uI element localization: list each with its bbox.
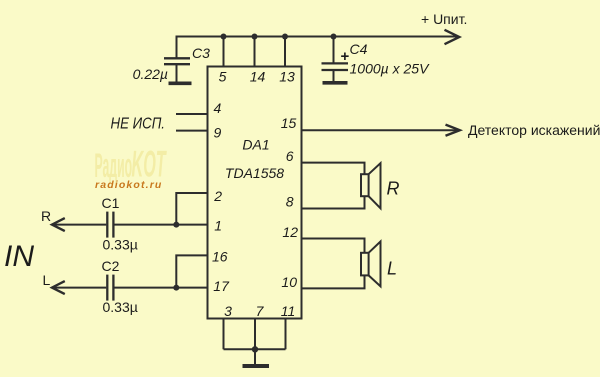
svg-text:2: 2 (213, 188, 222, 204)
svg-text:17: 17 (213, 278, 230, 294)
capacitor C2 (107, 275, 113, 301)
svg-text:C4: C4 (350, 41, 368, 57)
wire: pin 1 input (115, 224, 208, 226)
wire: pin 10 to speaker L (302, 275, 365, 288)
svg-text:L: L (387, 259, 397, 279)
junction: pin16/pin17 (173, 285, 179, 291)
wire: ground bus (224, 348, 286, 350)
svg-text:radiokot.ru: radiokot.ru (95, 179, 163, 191)
ground (C3) (169, 82, 192, 86)
wire: pin 4 stub (not used) (176, 113, 208, 115)
wire: ground stem (254, 349, 256, 364)
svg-text:DA1: DA1 (242, 137, 269, 153)
svg-text:7: 7 (256, 303, 265, 319)
svg-text:3: 3 (224, 303, 232, 319)
svg-text:12: 12 (282, 224, 298, 240)
wire: pin 14 lead (254, 37, 256, 68)
svg-text:C3: C3 (192, 45, 210, 61)
ground symbol (243, 364, 270, 368)
capacitor C4 (322, 37, 349, 82)
capacitor C3 (164, 58, 190, 81)
wire: pin 17 input (115, 287, 208, 289)
wire: pin 13 lead (284, 37, 286, 68)
junction: rail / C4 (331, 34, 337, 40)
svg-text:13: 13 (279, 69, 295, 85)
svg-text:4: 4 (214, 100, 222, 116)
wire: input L segment (52, 287, 106, 289)
svg-text:L: L (43, 272, 51, 288)
svg-text:IN: IN (4, 240, 34, 273)
svg-text:11: 11 (281, 303, 296, 319)
svg-text:Детектор искажений: Детектор искажений (468, 122, 600, 138)
wire: pin 12 to speaker L (302, 239, 365, 253)
junction: ground (252, 346, 258, 352)
arrow: input R (52, 218, 65, 231)
svg-text:0.22µ: 0.22µ (133, 66, 168, 82)
speaker L (361, 242, 381, 287)
wire: pin 9 stub (not used) (176, 130, 208, 132)
svg-text:C1: C1 (102, 195, 120, 211)
svg-text:5: 5 (219, 69, 227, 85)
arrow: input L (52, 281, 65, 294)
svg-text:15: 15 (281, 115, 297, 131)
svg-text:9: 9 (214, 124, 222, 140)
svg-text:НЕ ИСП.: НЕ ИСП. (111, 116, 166, 133)
svg-text:6: 6 (286, 148, 294, 164)
wire: pin 6 to speaker R (302, 163, 365, 175)
svg-text:10: 10 (281, 274, 297, 290)
svg-text:R: R (387, 179, 400, 199)
junction: pin1/pin2 (173, 222, 179, 228)
IC U1 DA1 TDA1558 body (208, 67, 302, 319)
wire: +V supply rail (177, 37, 459, 58)
wire: input R segment (52, 224, 106, 226)
wire: pin 11 lead (285, 319, 287, 350)
svg-text:0.33µ: 0.33µ (103, 299, 138, 315)
svg-text:+: + (341, 48, 350, 65)
junction: rail / pin 5 (221, 34, 227, 40)
capacitor C1 (107, 212, 113, 238)
svg-text:+ Uпит.: + Uпит. (421, 11, 467, 27)
speaker R (361, 163, 381, 208)
wire: pin 16 loop to pin 17 (176, 255, 207, 287)
svg-text:1: 1 (214, 217, 222, 233)
wire: pin 8 to speaker R (302, 196, 365, 208)
wire: pin 2 loop to pin 1 (176, 193, 207, 225)
junction: rail / pin 13 (282, 34, 288, 40)
wire: pin 5 lead (223, 37, 225, 68)
junction: rail / pin 14 (252, 34, 258, 40)
svg-text:8: 8 (286, 194, 294, 210)
svg-text:16: 16 (212, 249, 228, 265)
watermark: Радио КОТ logo (95, 144, 168, 185)
svg-text:14: 14 (250, 69, 266, 85)
ground (C4) (323, 81, 348, 85)
wire: pin 3 lead (223, 319, 225, 350)
svg-text:0.33µ: 0.33µ (103, 237, 138, 253)
arrow: detector output (446, 125, 460, 136)
svg-text:1000µ x 25V: 1000µ x 25V (350, 61, 431, 77)
svg-text:R: R (41, 208, 51, 224)
arrow: supply to +Uпит (445, 30, 460, 44)
wire: pin 7 lead (254, 319, 256, 350)
svg-text:C2: C2 (102, 258, 120, 274)
wire: pin 15 output to detector (302, 129, 459, 131)
svg-text:TDA1558: TDA1558 (225, 165, 284, 181)
